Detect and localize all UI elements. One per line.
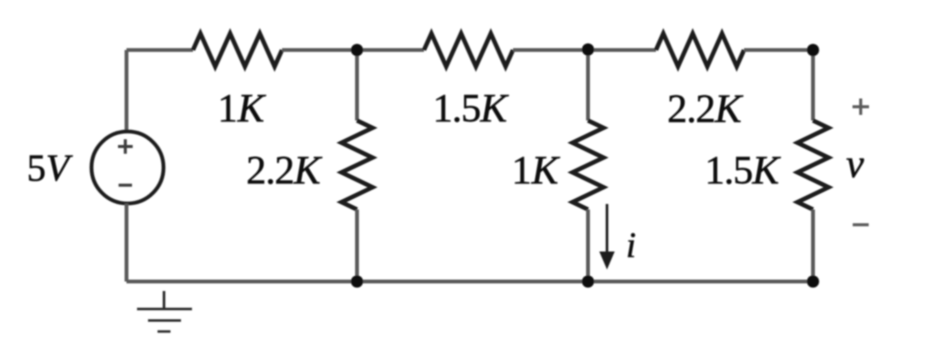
resistor R3 2.2K (horizontal) <box>656 34 744 67</box>
wire top rail node B to R3 <box>588 48 656 52</box>
wire top rail left segment <box>127 48 194 52</box>
ground bar 1 <box>137 308 192 310</box>
resistor R1 1K (horizontal) <box>193 34 282 67</box>
svg-text:2.2K: 2.2K <box>246 148 323 193</box>
wire bottom rail <box>127 280 814 284</box>
current arrow i <box>606 204 609 254</box>
wire branch node B lower <box>586 210 590 282</box>
voltage source V1 5V <box>92 132 164 204</box>
resistor R2 1.5K (horizontal) <box>424 34 513 67</box>
label v minus polarity <box>853 223 869 226</box>
svg-text:1.5K: 1.5K <box>705 148 782 193</box>
junction node C bottom <box>807 275 819 287</box>
ground bar 2 <box>148 319 181 321</box>
resistor R5 1K (vertical) <box>573 121 604 210</box>
resistor R6 1.5K (vertical) <box>798 121 829 210</box>
wire top rail R3 to node C <box>744 48 813 52</box>
wire branch node A upper <box>355 50 359 121</box>
junction node B bottom <box>582 275 594 287</box>
wire top rail R2 to node B <box>513 48 588 52</box>
resistor R4 2.2K (vertical) <box>342 121 373 210</box>
svg-text:1K: 1K <box>512 148 561 193</box>
ground bar 3 <box>158 330 171 332</box>
wire branch node A lower <box>355 210 359 282</box>
svg-text:i: i <box>626 225 636 265</box>
svg-text:2.2K: 2.2K <box>667 86 744 131</box>
wire top rail R1 to node A <box>282 48 357 52</box>
ground stub <box>163 291 166 309</box>
junction node C top <box>807 44 819 56</box>
junction node B top <box>582 43 594 55</box>
wire branch node B upper <box>586 50 590 121</box>
junction node A top <box>351 44 363 56</box>
wire top rail node A to R2 <box>357 48 424 52</box>
wire branch node C upper <box>811 50 815 121</box>
svg-text:v: v <box>846 141 864 186</box>
wire left branch upper (source to top rail) <box>125 50 129 132</box>
svg-text:5V: 5V <box>27 148 73 190</box>
V1 plus sign <box>118 139 133 154</box>
svg-text:1.5K: 1.5K <box>433 86 510 131</box>
label v plus polarity <box>853 99 870 115</box>
wire left branch lower (source to bottom rail) <box>125 204 129 282</box>
junction node A bottom <box>351 275 363 287</box>
wire branch node C lower <box>811 210 815 282</box>
V1 minus sign <box>119 184 132 187</box>
svg-text:1K: 1K <box>218 86 267 131</box>
